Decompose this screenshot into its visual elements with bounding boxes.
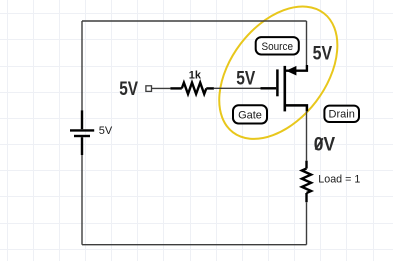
svg-text:5V: 5V bbox=[236, 68, 255, 89]
mosfet Q1: source lead with arrow bbox=[286, 65, 307, 76]
svg-text:Source: Source bbox=[262, 41, 294, 53]
wire load resistor to bottom bbox=[306, 202, 308, 245]
resistor R1 (1k) bbox=[170, 83, 214, 94]
wire left upper (top to battery) bbox=[81, 21, 83, 110]
wire resistor R1 to gate bbox=[214, 87, 261, 89]
svg-text:Drain: Drain bbox=[329, 109, 355, 121]
wire bottom bbox=[82, 244, 307, 246]
svg-text:Load = 1: Load = 1 bbox=[318, 174, 360, 186]
wire right upper (top to source) bbox=[306, 21, 308, 65]
wire drain to load resistor bbox=[306, 111, 308, 160]
svg-text:5V: 5V bbox=[99, 125, 113, 137]
svg-text:Gate: Gate bbox=[238, 109, 262, 121]
wire left lower (battery to bottom) bbox=[81, 155, 83, 245]
mosfet Q1 p-channel: gate lead stub bbox=[261, 87, 277, 89]
pin label box Drain bbox=[324, 106, 359, 122]
resistor R2 (load) bbox=[302, 161, 311, 203]
highlight ellipse around MOSFET bbox=[195, 0, 361, 161]
battery V1 bbox=[70, 110, 94, 155]
pin label box Source bbox=[256, 37, 299, 54]
mosfet Q1: channel bar bbox=[283, 66, 286, 112]
svg-text:0V: 0V bbox=[314, 135, 336, 156]
wire top (battery + to source) bbox=[82, 20, 307, 22]
pin label box Gate bbox=[233, 105, 267, 123]
svg-text:5V: 5V bbox=[313, 44, 333, 65]
svg-text:5V: 5V bbox=[119, 79, 138, 100]
mosfet Q1: drain lead bbox=[285, 105, 307, 111]
svg-text:1k: 1k bbox=[189, 69, 202, 81]
mosfet Q1: gate bar bbox=[276, 69, 279, 96]
input port terminal bbox=[146, 86, 152, 92]
node label 0V (drain) with slashed zero bbox=[314, 135, 336, 156]
wire port to resistor R1 bbox=[152, 87, 171, 89]
